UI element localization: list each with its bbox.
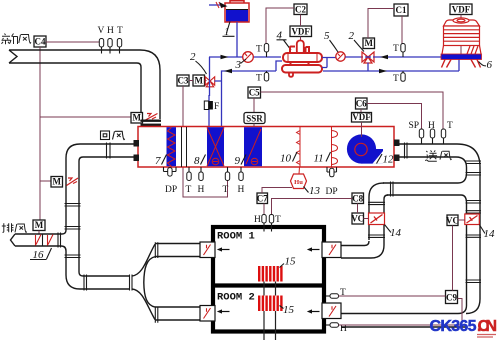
tower basin xyxy=(441,54,482,60)
controller C1 xyxy=(394,4,408,16)
wire C4 to V sensor xyxy=(46,41,99,43)
sensor T supply duct xyxy=(441,121,453,145)
damper 14 left xyxy=(369,213,385,225)
wire VC to damper xyxy=(364,218,369,220)
flow arrow (to tower) xyxy=(379,69,387,74)
controller C5 xyxy=(248,87,261,98)
tower legs xyxy=(442,60,481,68)
branch duct to room 1 xyxy=(155,244,200,257)
wire VC to damper right xyxy=(458,219,465,221)
svg-text:SSR: SSR xyxy=(246,113,263,123)
room2 right diffuser xyxy=(322,303,341,319)
svg-text:M: M xyxy=(52,177,61,187)
label 8 xyxy=(194,155,206,168)
controller C8 xyxy=(352,193,364,204)
condenser pipe chiller to pump 5 xyxy=(322,58,336,68)
fan 12 xyxy=(347,134,383,163)
label 13 xyxy=(304,185,321,197)
sensor H after filter xyxy=(198,167,205,195)
exhaust duct flange xyxy=(58,233,61,248)
svg-text:11: 11 xyxy=(314,153,324,165)
expansion tank 1 water fill xyxy=(226,10,248,22)
radiator pipes xyxy=(264,282,276,340)
DP bracket filter 11 xyxy=(326,167,338,197)
wire SSR to coil 9 xyxy=(253,124,255,128)
chiller 4 top connections xyxy=(290,47,309,54)
svg-text:T: T xyxy=(223,185,229,195)
wire C2 to T sensor xyxy=(266,8,294,43)
room2 left diffuser xyxy=(200,306,215,322)
svg-text:VC: VC xyxy=(351,214,364,224)
svg-text:M: M xyxy=(194,76,203,86)
wire C8 to VC xyxy=(357,204,359,214)
label 16 xyxy=(30,248,52,261)
svg-text:M: M xyxy=(132,113,141,123)
svg-text:T: T xyxy=(447,121,453,131)
svg-text:ROOM 2: ROOM 2 xyxy=(217,292,255,304)
controller C7 xyxy=(257,193,268,204)
label 9 xyxy=(235,155,247,168)
svg-text:C6: C6 xyxy=(356,99,367,109)
svg-text:DP: DP xyxy=(165,185,177,195)
label 3 xyxy=(235,59,247,71)
actuator M fresh air damper xyxy=(131,113,143,124)
label 14 left xyxy=(385,225,402,240)
chiller 4 drain hook xyxy=(289,73,293,77)
svg-text:.CN: .CN xyxy=(477,318,497,335)
VDF cooling tower fan xyxy=(450,4,472,15)
svg-text:H: H xyxy=(107,26,114,36)
label 15 room1 xyxy=(280,256,297,268)
wire C5 to supply T sensor xyxy=(261,92,444,129)
condenser supply pipe pump5 to valve xyxy=(345,56,363,58)
wire VC to C9 xyxy=(452,226,454,291)
svg-text:T: T xyxy=(393,74,399,84)
svg-text:T: T xyxy=(393,44,399,54)
svg-text:VDF: VDF xyxy=(291,26,310,36)
three-way valve 2 (chilled) xyxy=(205,77,214,87)
return air damper blade xyxy=(67,178,79,186)
cooling tower 6 body xyxy=(442,18,481,54)
return duct flange xyxy=(107,143,111,159)
pump 5 xyxy=(336,52,345,61)
expansion tank 1 shell xyxy=(225,1,249,22)
controller C6 xyxy=(356,98,368,109)
svg-text:V: V xyxy=(98,26,105,36)
sensor SP supply duct xyxy=(409,121,424,145)
wire C6 to SP sensor xyxy=(367,104,422,130)
wire C7 to Hu xyxy=(262,188,292,194)
svg-text:C5: C5 xyxy=(249,88,260,98)
svg-text:C2: C2 xyxy=(295,5,306,15)
room2 right arrow xyxy=(307,309,320,313)
label 新风 fresh air xyxy=(2,34,32,45)
humidifier nozzles 10 xyxy=(297,127,301,167)
sensor T after filter xyxy=(186,167,192,195)
bottom duct flanges xyxy=(84,275,132,291)
radiator 15 room 2 xyxy=(258,296,283,312)
svg-text:T: T xyxy=(256,45,262,55)
room1 left arrow xyxy=(217,247,230,251)
exhaust dampers 16 xyxy=(36,235,54,246)
cooling coil 8 xyxy=(207,127,224,166)
VDF fan drive xyxy=(352,112,372,122)
room1 right arrow xyxy=(307,247,320,251)
svg-text:14: 14 xyxy=(484,228,496,240)
svg-text:H: H xyxy=(198,185,205,195)
return duct flanges vertical xyxy=(65,204,81,258)
svg-text:6: 6 xyxy=(487,59,493,71)
branch duct to room 2 xyxy=(155,307,200,320)
duct B elbow down xyxy=(369,183,388,245)
wire C8 to room1 T sensor xyxy=(272,199,353,216)
svg-text:T: T xyxy=(117,26,123,36)
actuator M chilled valve xyxy=(193,75,205,86)
actuator M exhaust damper xyxy=(33,220,45,231)
svg-text:DP: DP xyxy=(326,187,338,197)
svg-text:C4: C4 xyxy=(35,37,46,47)
chilled supply pipe to coil xyxy=(208,95,210,127)
label 排风 exhaust air xyxy=(2,223,27,232)
pump 3 xyxy=(243,52,254,63)
wire VDF to chiller xyxy=(300,15,302,42)
label 2 (chilled valve) xyxy=(190,51,207,74)
duct B vertical flanges xyxy=(368,202,385,237)
label 4 xyxy=(277,30,292,51)
label 12 xyxy=(377,154,395,166)
wire C6 to VDF xyxy=(360,109,362,113)
svg-text:SP: SP xyxy=(409,121,420,131)
svg-text:5: 5 xyxy=(324,30,330,42)
sensor T return line xyxy=(256,71,269,84)
wire VDF into tower xyxy=(460,15,462,57)
svg-text:2: 2 xyxy=(349,30,355,42)
chiller 4 lower shell xyxy=(282,65,322,73)
svg-text:M: M xyxy=(35,220,44,230)
svg-text:15: 15 xyxy=(283,304,295,316)
label 5 xyxy=(324,30,338,52)
controller C4 xyxy=(34,36,46,47)
label 6 xyxy=(479,59,493,71)
VDF chiller xyxy=(290,26,312,37)
sensor H after coil xyxy=(238,167,245,195)
wire room2 H to C9 xyxy=(339,299,463,326)
damper 14 right xyxy=(465,214,480,225)
room1 ceiling sensor H xyxy=(254,215,266,232)
fresh air duct xyxy=(9,50,160,119)
DP bracket filter 7 xyxy=(164,167,178,195)
AHU inlet brackets xyxy=(134,140,140,147)
flow arrow return xyxy=(224,69,232,74)
controller C3 xyxy=(177,75,189,86)
condenser pipe valve to tower xyxy=(365,56,442,58)
wire VDF to fan xyxy=(361,122,363,137)
wire C7 to room H sensor xyxy=(263,204,265,215)
wire room2 T to C9 xyxy=(339,295,446,297)
right duct flanges xyxy=(466,161,482,283)
bag filter 11 xyxy=(332,127,338,167)
wire trunk C4 down to dampers xyxy=(40,47,131,221)
room2 wall sensor T xyxy=(326,288,346,298)
svg-text:T: T xyxy=(275,215,281,225)
watermark sub text xyxy=(477,335,496,338)
radiator 15 room 1 xyxy=(258,266,283,282)
wire C1 to T sensor xyxy=(401,16,403,44)
sensor T on fresh duct xyxy=(117,26,123,54)
svg-text:2: 2 xyxy=(190,51,196,63)
svg-text:CK365: CK365 xyxy=(430,318,477,335)
wire C3 to duct T sensor xyxy=(183,86,228,197)
svg-text:C3: C3 xyxy=(178,76,189,86)
supply duct flange xyxy=(405,143,408,159)
flow arrow (to valve) xyxy=(380,55,388,60)
svg-text:VDF: VDF xyxy=(452,4,471,14)
room1 right diffuser xyxy=(322,242,341,258)
bottom supply duct to room2 xyxy=(341,314,466,328)
SSR solid state relay xyxy=(244,113,265,124)
controller C9 xyxy=(446,291,458,304)
chiller 4 upper shell xyxy=(283,53,322,62)
svg-text:15: 15 xyxy=(285,256,297,268)
wire C3-M xyxy=(189,80,207,82)
wire M to exhaust duct xyxy=(38,231,40,235)
supply air duct from AHU xyxy=(400,144,481,314)
svg-text:ROOM 1: ROOM 1 xyxy=(217,231,255,243)
room2 wall sensor H xyxy=(326,323,347,334)
chiller 4 dome xyxy=(297,41,304,55)
svg-text:T: T xyxy=(186,185,192,195)
label 14 right xyxy=(479,225,495,241)
label 2 (condenser valve) xyxy=(349,30,365,52)
svg-text:9: 9 xyxy=(235,155,241,167)
sensor H supply duct xyxy=(428,121,435,145)
three-way valve 2 (condenser) xyxy=(362,52,374,63)
sensor V on fresh duct xyxy=(98,26,105,54)
filter 7 xyxy=(167,127,177,166)
AHU casing xyxy=(138,127,394,168)
rooms middle wall xyxy=(211,283,326,287)
svg-text:F: F xyxy=(214,102,219,112)
room2 left arrow xyxy=(217,309,230,313)
AHU outlet brackets xyxy=(394,140,400,147)
chilled return pipe xyxy=(215,61,283,127)
sensor T after coil (to C3) xyxy=(223,167,230,195)
Y branch fitting xyxy=(132,244,156,319)
make-up water line with arrow xyxy=(209,4,221,6)
svg-text:C1: C1 xyxy=(396,5,407,15)
label 15 room2 xyxy=(280,304,295,316)
svg-text:13: 13 xyxy=(309,185,321,197)
label 10 xyxy=(280,152,297,165)
actuator M condenser valve xyxy=(363,38,375,49)
svg-text:Hu: Hu xyxy=(294,179,303,186)
svg-text:H: H xyxy=(254,215,261,225)
duct flex connection bars xyxy=(141,120,162,122)
svg-text:7: 7 xyxy=(155,155,161,167)
svg-text:14: 14 xyxy=(390,227,402,239)
sensor H on fresh duct xyxy=(107,26,114,54)
humidifier Hu 13 xyxy=(291,167,307,189)
svg-text:H: H xyxy=(428,121,435,131)
tank water line xyxy=(226,9,248,11)
flow switch F xyxy=(204,101,219,112)
svg-text:C7: C7 xyxy=(257,193,268,203)
svg-text:M: M xyxy=(364,38,373,48)
svg-text:T: T xyxy=(256,74,262,84)
sensor T condenser supply xyxy=(393,44,405,58)
pipe tank down to supply line xyxy=(236,22,238,57)
svg-text:VDF: VDF xyxy=(352,112,371,122)
condenser return pipe to tower xyxy=(323,59,459,71)
chiller 4 shell links xyxy=(291,62,309,66)
svg-text:8: 8 xyxy=(194,155,200,167)
duct B flange xyxy=(391,182,394,197)
label 1 xyxy=(223,22,235,39)
svg-text:C8: C8 xyxy=(352,193,363,203)
wire C1 to valve actuator xyxy=(368,9,394,39)
heating coil 9 xyxy=(244,127,262,166)
chilled supply pipe xyxy=(209,57,281,96)
section divider lines xyxy=(182,127,187,167)
label 送风 supply air xyxy=(425,151,451,162)
wire C5 to SSR xyxy=(253,98,255,113)
svg-text:C9: C9 xyxy=(446,293,457,303)
label 11 xyxy=(314,152,331,165)
flow arrow supply xyxy=(221,55,229,60)
sensor T condenser return xyxy=(393,71,405,84)
actuator M return damper xyxy=(51,177,63,188)
label 7 xyxy=(155,155,167,168)
label 回风 return air xyxy=(101,131,125,140)
duct B elbow to room1 xyxy=(341,241,384,258)
rooms outer wall xyxy=(213,227,324,332)
controller VC right xyxy=(446,215,459,226)
controller VC left xyxy=(351,213,364,224)
fresh air damper blade xyxy=(145,114,158,121)
room1 ceiling sensor T xyxy=(269,215,281,232)
room1 left diffuser xyxy=(200,242,215,258)
exhaust duct xyxy=(11,230,67,251)
svg-text:12: 12 xyxy=(383,154,395,166)
controller C2 xyxy=(294,4,307,15)
svg-text:H: H xyxy=(238,185,245,195)
sensor T supply line (to C2) xyxy=(256,44,269,58)
watermark CK365.CN xyxy=(430,318,498,335)
svg-text:10: 10 xyxy=(280,153,292,165)
return air duct to AHU xyxy=(66,144,134,289)
valve bottom port pipe xyxy=(367,63,369,72)
branch duct B from tee xyxy=(383,173,467,203)
svg-text:3: 3 xyxy=(235,59,242,71)
svg-text:VC: VC xyxy=(446,215,459,225)
